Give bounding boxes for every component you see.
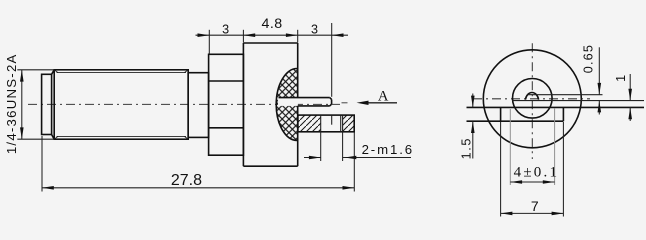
vertical centerline [531,43,533,159]
top dimension chain line [196,34,349,36]
base plate sides [501,107,564,121]
2-m1.6 dimension [304,132,411,192]
contact pin tab [279,98,332,106]
flange disc [243,43,297,166]
pin slot clear [278,98,298,106]
step neck [188,73,208,138]
insulator circle [513,79,553,119]
27.8 overall dimension [42,136,354,192]
flange disc circle [483,50,581,148]
1.5 dimension [472,94,474,159]
base top line [467,106,645,108]
hex nut [209,54,244,155]
svg-text:1/4-36UNS-2A: 1/4-36UNS-2A [4,53,19,154]
svg-text:1: 1 [614,75,628,82]
4±0.1 dimension [510,108,554,185]
thread minor lines [54,70,188,139]
threaded barrel [54,70,188,139]
seat line [513,100,644,102]
svg-text:A: A [378,89,389,105]
svg-text:3: 3 [311,22,318,36]
insulator arc outline [276,69,297,141]
mounting leg (sectioned) [298,115,354,132]
svg-text:2-m1.6: 2-m1.6 [362,142,414,157]
svg-text:4.8: 4.8 [261,16,282,32]
7 dimension [501,122,564,217]
end cap [42,70,55,139]
pin flat chord [527,94,602,96]
0.65 dimension [598,47,600,114]
top dim arrows [198,33,210,37]
section arrow A [342,102,348,104]
1 dimension [629,74,631,121]
insulator bead (half ellipse, cross-hatched) [276,69,297,141]
svg-text:3: 3 [222,22,229,36]
centerline left view [28,103,340,105]
svg-text:7: 7 [531,198,539,214]
pin dome [525,92,538,99]
horizontal centerline [473,98,590,100]
svg-text:27.8: 27.8 [171,172,202,189]
svg-text:0.65: 0.65 [582,44,596,73]
thread spec dimension 1/4-36UNS-2A [17,70,54,139]
svg-text:4±0.1: 4±0.1 [514,164,559,180]
svg-text:1.5: 1.5 [460,137,474,159]
base bottom line [467,120,564,122]
leg thread relief lines [321,115,343,132]
top extension lines [209,23,331,97]
